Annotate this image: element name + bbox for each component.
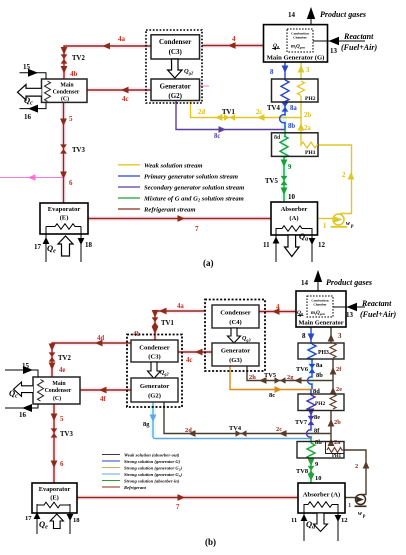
svg-text:18: 18: [73, 517, 80, 524]
svg-text:3: 3: [306, 67, 310, 74]
svg-text:Qg3: Qg3: [242, 336, 251, 343]
Main Generator (G) fig a: [264, 25, 328, 62]
dashed box C3+G2 fig a: [146, 30, 202, 103]
water 15 in fig a: [20, 63, 47, 79]
svg-text:Condenser: Condenser: [220, 310, 250, 317]
water 16 out fig a: [20, 102, 47, 121]
svg-text:TV1: TV1: [161, 320, 174, 327]
red stream labels fig a: [69, 35, 236, 233]
svg-text:Weak solution (absorber-out): Weak solution (absorber-out): [124, 453, 180, 458]
legend fig a: [118, 162, 244, 213]
arrow on wire 7: [178, 215, 186, 222]
svg-text:TV2: TV2: [72, 55, 85, 62]
svg-text:(b): (b): [205, 537, 216, 547]
reactant fig a: [313, 32, 377, 55]
Absorber fig a: [263, 202, 326, 262]
svg-text:4c: 4c: [186, 357, 192, 364]
svg-text:(a): (a): [203, 258, 214, 268]
svg-text:12: 12: [318, 241, 326, 249]
svg-text:8: 8: [270, 69, 274, 76]
valve TV2: [49, 344, 56, 352]
svg-text:Refrigerant stream: Refrigerant stream: [143, 207, 195, 214]
generator G3: [212, 343, 259, 366]
svg-text:4a: 4a: [177, 303, 184, 310]
product gases fig a: [288, 7, 366, 25]
svg-text:mfQgen: mfQgen: [291, 45, 305, 50]
svg-text:12: 12: [341, 517, 348, 524]
wire 2e-2f vertical: [332, 359, 334, 394]
svg-text:18: 18: [85, 241, 93, 249]
weak labels fig b: [185, 366, 358, 509]
svg-text:2g: 2g: [287, 374, 294, 381]
wire 4 main gen to C4: [259, 311, 296, 313]
dashed box C4+G3 fig b: [205, 300, 265, 372]
wire 1 absorber to pump: [345, 497, 356, 499]
svg-text:Primary generator solution str: Primary generator solution stream: [144, 174, 238, 181]
svg-text:TV7: TV7: [295, 419, 308, 426]
wire 4c G3 to C3: [178, 351, 212, 353]
generator G2 fig a: [151, 79, 200, 101]
svg-text:4b: 4b: [70, 70, 78, 78]
svg-text:2b: 2b: [304, 112, 311, 119]
svg-text:(C): (C): [53, 395, 61, 402]
weak solution (dark) wires fig b: [164, 327, 366, 498]
svg-text:9: 9: [315, 461, 318, 468]
refrigerant (dark red) wires fig b: [52, 311, 298, 498]
svg-text:2b: 2b: [334, 419, 341, 426]
svg-text:10: 10: [288, 193, 296, 201]
svg-text:Generator: Generator: [140, 383, 169, 390]
pump b: [355, 495, 367, 520]
svg-text:11: 11: [291, 517, 297, 524]
glow halos: [20, 46, 271, 219]
blue strong G wires fig b: [308, 327, 316, 390]
svg-text:Main: Main: [52, 381, 66, 387]
svg-text:(G3): (G3): [229, 357, 242, 364]
svg-text:TV4: TV4: [267, 105, 280, 112]
water 16 fig b: [5, 404, 38, 419]
PH3 box fig b: [298, 343, 344, 359]
svg-text:7: 7: [195, 225, 199, 233]
wire 2 pump to PH1: [344, 450, 366, 495]
yellow weak solution fig a: [191, 62, 352, 219]
svg-text:2: 2: [342, 172, 346, 179]
svg-text:4c: 4c: [122, 95, 129, 103]
svg-text:Product gases: Product gases: [326, 278, 372, 287]
svg-text:14: 14: [288, 11, 296, 19]
svg-text:Generator: Generator: [221, 348, 250, 355]
svg-text:p: p: [362, 514, 366, 519]
svg-text:2f: 2f: [336, 366, 342, 373]
svg-text:2a: 2a: [334, 439, 341, 446]
svg-text:4: 4: [276, 304, 280, 311]
svg-text:TV5: TV5: [265, 178, 278, 185]
svg-text:16: 16: [19, 411, 27, 419]
Evaporator fig b: [25, 483, 80, 534]
svg-text:2c: 2c: [276, 426, 282, 433]
svg-text:Main: Main: [60, 83, 74, 89]
wire 8 gen to PH2: [284, 62, 286, 80]
blue coil in PH2: [281, 80, 289, 103]
Main Condenser fig b: [33, 377, 80, 404]
wire 2b-2a vertical: [300, 96, 302, 141]
svg-text:8c: 8c: [214, 133, 220, 140]
svg-text:Secondary generator solution s: Secondary generator solution stream: [144, 185, 244, 192]
svg-text:8a: 8a: [316, 362, 323, 369]
wire 8a TV4 8b with hop: [280, 102, 285, 130]
orange strong G3 wire fig b: [230, 366, 311, 390]
svg-text:8b: 8b: [316, 372, 323, 379]
wire 7 evaporator to absorber: [77, 497, 299, 499]
Main Generator fig b: [296, 291, 346, 327]
svg-text:Absorber: Absorber: [281, 206, 308, 213]
wire 4a C3 to TV2 corner: [64, 46, 151, 79]
glow halos: [14, 311, 298, 498]
svg-text:2d: 2d: [198, 109, 205, 116]
condenser C3 fig b: [131, 340, 178, 362]
svg-text:Chamber: Chamber: [293, 36, 307, 40]
svg-text:8: 8: [302, 332, 306, 340]
svg-text:TV3: TV3: [60, 431, 73, 438]
svg-text:1: 1: [348, 502, 351, 509]
svg-text:16: 16: [24, 113, 32, 121]
blue primary stream fig a: [280, 62, 289, 130]
wire 2g-2h branch to G3: [247, 366, 333, 381]
svg-text:(G2): (G2): [168, 92, 182, 100]
svg-text:PH2: PH2: [315, 401, 325, 407]
wire 7 evaporator to absorber: [88, 218, 271, 220]
arrow on wire 4: [228, 42, 236, 49]
svg-text:6: 6: [60, 461, 64, 468]
Main Condenser fig a: [42, 79, 88, 103]
svg-text:8d: 8d: [274, 135, 281, 141]
svg-text:17: 17: [34, 243, 42, 251]
svg-text:Refrigerant: Refrigerant: [124, 485, 147, 490]
svg-text:7: 7: [176, 504, 180, 511]
svg-text:PH1: PH1: [332, 454, 342, 459]
svg-text:10: 10: [315, 475, 321, 482]
purple secondary stream fig a: [176, 101, 285, 130]
wire 1 absorber to pump: [318, 218, 334, 220]
svg-text:Main Generator: Main Generator: [298, 320, 343, 327]
PH1 box fig a: [272, 133, 319, 157]
yellow labels: [198, 67, 346, 230]
magenta artifact lines: [0, 86, 209, 178]
hollow arrow Qg2 fig b: [148, 362, 161, 379]
wire 2a-2b vertical: [330, 411, 332, 442]
svg-text:8b: 8b: [288, 123, 295, 130]
svg-text:5: 5: [69, 115, 73, 123]
svg-text:13: 13: [330, 47, 338, 55]
svg-text:(Fuel+Air): (Fuel+Air): [360, 310, 396, 319]
svg-text:Condenser: Condenser: [139, 345, 169, 352]
svg-text:3: 3: [338, 332, 342, 340]
valve TV3: [60, 144, 67, 153]
pump wp: [331, 214, 355, 229]
svg-text:Main Generator (G): Main Generator (G): [267, 55, 325, 62]
svg-text:(G2): (G2): [148, 393, 161, 400]
svg-text:Strong solution (generator G): Strong solution (generator G): [124, 459, 181, 464]
valve TV1: [152, 310, 159, 318]
wire 2c-2d branch to G2: [164, 402, 331, 434]
svg-text:8a: 8a: [290, 105, 297, 112]
svg-text:4e: 4e: [59, 367, 65, 374]
legend fig b: [102, 453, 182, 491]
svg-text:(C3): (C3): [148, 354, 160, 361]
svg-text:Condenser: Condenser: [53, 90, 80, 96]
wire 3 into main gen: [330, 327, 332, 343]
svg-text:Strong solution (generator G3): Strong solution (generator G3): [124, 472, 182, 478]
svg-text:11: 11: [263, 241, 270, 249]
svg-text:Evaporator: Evaporator: [39, 486, 71, 493]
refrigerant (dark red) wires fig a: [64, 46, 272, 219]
svg-text:17: 17: [25, 515, 32, 522]
generator G2 fig b: [131, 378, 178, 402]
svg-text:(C3): (C3): [169, 48, 183, 56]
wire 5-6 condenser to evaporator: [53, 404, 55, 483]
svg-text:4: 4: [232, 35, 236, 43]
svg-text:Weak solution stream: Weak solution stream: [144, 162, 203, 169]
wire 2 pump to PH1: [318, 145, 352, 214]
svg-text:8f: 8f: [314, 428, 320, 435]
Absorber fig b: [291, 483, 348, 541]
wire 4a C4 box to TV1 corner: [155, 311, 205, 340]
wire 5-6 condenser to evaporator: [63, 102, 65, 203]
svg-text:8c: 8c: [269, 392, 275, 399]
svg-text:(A): (A): [289, 215, 298, 222]
arrow on wire 4a: [103, 43, 111, 50]
dashed box C3+G2 fig b: [127, 335, 182, 408]
water 15 fig b: [5, 362, 38, 377]
svg-text:PH2: PH2: [305, 96, 316, 102]
PH1 box fig b: [297, 442, 344, 460]
svg-text:(Fuel+Air): (Fuel+Air): [341, 43, 377, 52]
svg-text:5: 5: [60, 416, 64, 423]
svg-text:2a: 2a: [304, 125, 311, 132]
svg-text:Strong solution (generator G2): Strong solution (generator G2): [124, 466, 182, 472]
svg-text:15: 15: [22, 362, 30, 370]
hollow arrow Qc fig a: [18, 85, 42, 100]
arrows on 4b vertical: [61, 47, 68, 55]
svg-text:p: p: [350, 224, 354, 229]
valve TV1: [224, 114, 235, 120]
condenser C4: [212, 305, 259, 328]
purple mixture wires fig b: [307, 390, 315, 439]
Evaporator fig a: [34, 203, 93, 262]
product gases fig b: [301, 270, 372, 291]
reactant fig b: [333, 299, 396, 319]
hollow arrow Qg3: [228, 328, 241, 343]
svg-text:Condenser: Condenser: [45, 388, 72, 394]
wire 3 gen feed: [300, 62, 302, 79]
svg-text:TV1: TV1: [222, 109, 235, 116]
PH2 box fig b: [298, 394, 344, 411]
svg-text:PH1: PH1: [305, 150, 316, 156]
svg-text:Reactant: Reactant: [343, 32, 374, 41]
svg-text:mfQgen: mfQgen: [311, 311, 325, 316]
wire 2c-2d TV1 branch: [191, 101, 302, 118]
green mixture stream fig a: [280, 130, 288, 203]
svg-text:13: 13: [346, 311, 354, 319]
svg-text:TV5: TV5: [264, 372, 276, 379]
hollow arrow Qc fig b: [14, 382, 34, 396]
svg-text:15: 15: [23, 63, 31, 71]
svg-text:Reactant: Reactant: [361, 299, 392, 308]
svg-text:4a: 4a: [118, 35, 126, 43]
svg-text:2d: 2d: [185, 427, 192, 434]
svg-text:Product gases: Product gases: [320, 10, 366, 19]
cyan strong G2 wire fig b: [153, 402, 311, 439]
hollow arrow Qg2 fig a: [168, 59, 182, 78]
svg-text:(E): (E): [60, 215, 69, 222]
arrows on wire 5: [60, 119, 67, 127]
svg-text:Condenser: Condenser: [159, 38, 191, 46]
svg-text:Absorber (A): Absorber (A): [303, 492, 340, 499]
svg-text:(C): (C): [61, 96, 69, 103]
svg-text:TV2: TV2: [58, 355, 71, 362]
wire 4f G2 to main condenser: [80, 389, 131, 391]
svg-text:TV4: TV4: [229, 425, 242, 432]
svg-text:Qg2: Qg2: [160, 370, 169, 377]
svg-text:Evaporator: Evaporator: [48, 206, 81, 213]
svg-text:1: 1: [323, 223, 327, 230]
wire 4c G2 to main condenser: [87, 89, 151, 91]
svg-text:6: 6: [69, 179, 73, 187]
svg-text:TV6: TV6: [296, 366, 309, 373]
svg-text:Strong solution (absorber-in): Strong solution (absorber-in): [124, 479, 180, 484]
svg-text:2c: 2c: [256, 109, 262, 116]
svg-text:(E): (E): [50, 495, 59, 502]
svg-text:4d: 4d: [97, 335, 104, 342]
svg-text:2h: 2h: [249, 374, 256, 381]
svg-text:Chamber: Chamber: [313, 303, 327, 307]
PH2 box fig a: [272, 79, 319, 102]
svg-text:9: 9: [288, 164, 292, 171]
red labels fig b: [59, 303, 280, 511]
svg-text:(C4): (C4): [229, 319, 241, 326]
svg-text:8g: 8g: [143, 421, 150, 428]
svg-text:2: 2: [355, 463, 358, 470]
svg-text:Mixture of G and G2 solution s: Mixture of G and G2 solution stream: [143, 196, 244, 203]
svg-text:TV8: TV8: [296, 468, 308, 475]
svg-text:8e: 8e: [314, 414, 320, 421]
wire 4d C3 to TV2 corner: [52, 343, 131, 377]
svg-text:14: 14: [301, 279, 309, 287]
svg-text:4f: 4f: [100, 396, 106, 403]
svg-text:PH3: PH3: [318, 350, 329, 356]
green absorber-in wires fig b: [307, 439, 315, 484]
valve TV2: [61, 54, 68, 63]
svg-text:Generator: Generator: [160, 83, 191, 91]
wire 5 arrows / valve TV3: [51, 414, 58, 422]
arrow on wire 4c: [121, 87, 129, 94]
svg-text:2e: 2e: [336, 386, 342, 393]
svg-text:TV3: TV3: [72, 147, 85, 154]
condenser C3 fig a: [151, 35, 200, 59]
wire 4 main gen to C3 box: [202, 45, 264, 47]
